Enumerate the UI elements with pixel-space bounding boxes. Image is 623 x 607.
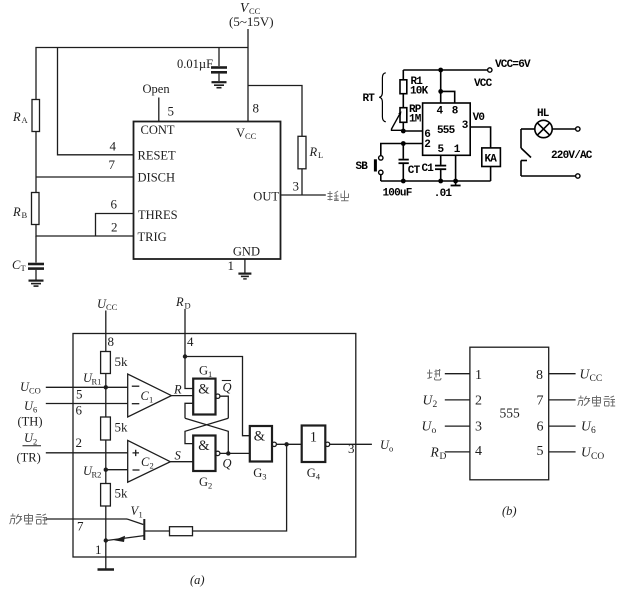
pin number 2 [76, 435, 83, 450]
wire RD vertical [184, 309, 186, 357]
svg-text:V0: V0 [473, 112, 485, 124]
wire pin1 down [455, 155, 457, 181]
svg-text:1M: 1M [409, 114, 422, 126]
resistor RA [32, 100, 40, 132]
capacitor CT [28, 236, 44, 280]
G1 output bubble [216, 394, 220, 398]
wire C2 out S [170, 461, 193, 463]
svg-text:GND: GND [233, 245, 260, 259]
pin 5 line [549, 451, 576, 453]
terminal VCC [488, 68, 492, 72]
label UCO right [581, 445, 604, 463]
G3 output bubble [272, 442, 276, 446]
svg-text:CC: CC [590, 374, 603, 384]
label Q [223, 457, 232, 471]
resistor 5k middle [101, 417, 111, 440]
pin5 stub Open [158, 98, 160, 122]
label U2 (TR) [17, 431, 41, 465]
label Uo left [422, 419, 437, 437]
pin number 5 [76, 387, 83, 402]
pin numbers left [475, 368, 482, 459]
svg-text:&: & [198, 438, 210, 454]
label UCO [20, 380, 41, 396]
potentiometer RP [400, 108, 407, 123]
wire pin2 rail [381, 144, 423, 156]
svg-text:OUT: OUT [253, 190, 279, 204]
label 220V/AC [551, 150, 593, 162]
svg-text:S: S [175, 449, 182, 463]
svg-text:SB: SB [356, 161, 369, 173]
svg-text:1: 1 [139, 510, 143, 520]
svg-text:6: 6 [537, 419, 544, 434]
svg-text:G: G [253, 466, 262, 480]
junction dot Q [226, 451, 230, 455]
svg-text:2: 2 [150, 461, 154, 471]
svg-text:G: G [199, 364, 208, 378]
svg-text:o: o [432, 426, 437, 436]
svg-text:D: D [440, 452, 447, 462]
label 5k middle [115, 420, 129, 435]
wire KA bottom [490, 167, 492, 182]
pin numbers [109, 101, 300, 274]
wire pin5 line [46, 386, 128, 388]
label G3 [253, 466, 266, 482]
wire pin6 [403, 130, 422, 132]
svg-text:6: 6 [76, 403, 83, 418]
svg-text:V: V [236, 126, 245, 140]
ground bar [98, 568, 115, 570]
terminal top [576, 127, 580, 131]
svg-text:o: o [389, 444, 393, 454]
wire pin7 line [46, 519, 144, 525]
gate G3 box [250, 426, 272, 462]
overline TR [23, 445, 42, 447]
svg-text:5k: 5k [115, 420, 129, 435]
wire cross diag Qbar to G2 [185, 418, 228, 443]
svg-text:CO: CO [591, 452, 604, 462]
capacitor 0.01uF [211, 48, 227, 82]
svg-text:CC: CC [245, 131, 257, 141]
wire collector to output node [193, 444, 287, 531]
wire RD to G3 top input [185, 357, 250, 436]
svg-text:4: 4 [316, 472, 321, 482]
svg-text:555: 555 [500, 406, 521, 421]
junction dot emitter [104, 538, 108, 542]
svg-text:&: & [198, 382, 210, 398]
label RB [12, 205, 28, 220]
pin number 1 [95, 542, 102, 557]
svg-text:A: A [22, 115, 29, 125]
svg-text:R: R [175, 295, 184, 309]
svg-text:(TR): (TR) [17, 451, 41, 465]
junction dot RD [183, 354, 187, 358]
gate G4 box [302, 426, 326, 463]
svg-text:6: 6 [111, 197, 118, 212]
svg-text:5: 5 [76, 387, 83, 402]
pin number 4 [187, 334, 194, 349]
svg-text:3: 3 [475, 419, 482, 434]
wire pin6 line [46, 403, 128, 405]
junction dot UR1 [104, 385, 108, 389]
pin 4 line [445, 451, 470, 453]
svg-text:Q: Q [223, 381, 232, 395]
wire cross diag Q to G1 [185, 418, 228, 453]
svg-text:CO: CO [29, 386, 41, 396]
label CT [12, 258, 27, 273]
label discharge CJK right 放电器 [578, 396, 616, 407]
transistor V1 [108, 519, 170, 542]
svg-text:Open: Open [143, 82, 171, 96]
gate G2 box [193, 436, 215, 472]
label & G3 [254, 429, 266, 445]
label KA [485, 154, 498, 166]
svg-text:4: 4 [475, 444, 482, 459]
svg-text:CC: CC [106, 302, 118, 312]
wire bottom rail [381, 180, 491, 182]
wire UCC vertical into box [105, 311, 107, 352]
overline Qbar [222, 380, 231, 382]
svg-text:R: R [173, 383, 182, 397]
label RP 1M [409, 104, 422, 126]
svg-text:5k: 5k [115, 354, 129, 369]
svg-text:1: 1 [475, 368, 482, 383]
svg-text:VCC: VCC [474, 78, 493, 90]
pin 6 line [549, 425, 576, 427]
svg-text:CT: CT [408, 165, 421, 177]
svg-text:DISCH: DISCH [138, 171, 176, 185]
svg-text:G: G [307, 466, 316, 480]
svg-text:2: 2 [433, 400, 438, 410]
pin 1 line [445, 373, 470, 375]
wire pin2 line [46, 452, 128, 454]
label 555 [500, 406, 521, 421]
label C2 [141, 455, 154, 471]
pin 2 line [445, 399, 470, 401]
svg-text:1: 1 [149, 395, 153, 405]
wire UR2 to C2 [106, 469, 128, 471]
wire THRES pin6 [96, 214, 134, 237]
svg-text:4: 4 [110, 139, 117, 154]
ground below GND [238, 274, 251, 279]
junction dot pin1 [453, 179, 458, 184]
resistor RB [32, 193, 40, 225]
label UCC right [580, 367, 603, 385]
switch SB [374, 156, 383, 181]
svg-text:(TH): (TH) [18, 415, 43, 429]
wire vcc vertical [247, 29, 249, 122]
label HL [537, 108, 550, 120]
wire ground below box [105, 557, 107, 569]
label output CJK 输出 [328, 191, 349, 202]
junction dot CT bottom [401, 179, 406, 184]
label 555 [437, 125, 456, 137]
pin GND stub [244, 259, 246, 273]
svg-text:G: G [199, 475, 208, 489]
svg-text:8: 8 [536, 368, 543, 383]
junction dot pin6 [401, 129, 406, 134]
svg-text:8: 8 [108, 334, 115, 349]
svg-text:T: T [21, 263, 27, 273]
svg-text:(5~15V): (5~15V) [229, 14, 274, 29]
svg-text:RT: RT [363, 93, 376, 105]
label VCC [474, 78, 493, 90]
svg-text:7: 7 [77, 519, 84, 534]
comparator C1 [128, 374, 172, 417]
wire pin4 vcc [440, 70, 442, 103]
svg-text:Q: Q [223, 457, 232, 471]
svg-text:100uF: 100uF [383, 188, 412, 200]
label U2 left [423, 393, 438, 411]
wire reset branch [58, 48, 134, 155]
svg-text:HL: HL [537, 108, 550, 120]
wire output U0 [330, 443, 372, 445]
label V0 [473, 112, 485, 124]
label UCC [97, 297, 118, 312]
svg-text:R: R [12, 205, 21, 219]
label R1 10K [410, 76, 429, 98]
resistor collector [170, 527, 193, 536]
svg-text:4: 4 [187, 334, 194, 349]
svg-text:3: 3 [293, 179, 300, 194]
label 1 G4 [310, 429, 317, 445]
svg-text:5k: 5k [115, 486, 129, 501]
svg-text:2: 2 [424, 139, 430, 151]
label & G1 [198, 382, 210, 398]
IC pin labels [138, 123, 280, 259]
label RL [309, 145, 324, 160]
pin 8 line [549, 373, 576, 375]
wire pin8 to RL branch [248, 86, 302, 137]
ground pin1 [451, 181, 461, 186]
wire lamp right [552, 128, 575, 130]
IC box [470, 347, 549, 480]
label G1 [199, 364, 212, 380]
label CT 100uF [383, 165, 421, 200]
svg-text:CONT: CONT [141, 123, 175, 137]
IC 555 box [423, 103, 471, 155]
pin 7 line [549, 399, 576, 401]
label RD left [430, 445, 447, 463]
label Qbar [223, 381, 232, 395]
svg-text:R1: R1 [92, 377, 102, 387]
svg-text:C1: C1 [422, 163, 435, 175]
svg-text:5: 5 [537, 444, 544, 459]
svg-text:5: 5 [168, 104, 175, 119]
svg-text:6: 6 [33, 405, 37, 415]
wire 5k2 to UR2 [105, 440, 107, 484]
wire RL bottom to OUT [301, 169, 303, 195]
svg-text:0.01µF: 0.01µF [177, 57, 213, 71]
label C1 .01 [422, 163, 453, 200]
svg-text:TRIG: TRIG [138, 230, 167, 244]
pin number 3 [348, 441, 355, 456]
relay KA box [482, 148, 501, 167]
label U0 [380, 438, 393, 454]
resistor RL [298, 136, 306, 169]
svg-text:2: 2 [111, 220, 118, 235]
svg-text:VCC=6V: VCC=6V [495, 59, 531, 71]
svg-text:L: L [318, 150, 323, 160]
svg-text:7: 7 [537, 393, 544, 408]
label VCC=6V [495, 59, 531, 71]
label G2 [199, 475, 212, 491]
junction dot pin4/8 [438, 89, 443, 94]
label discharge CJK 放电端 [10, 514, 48, 525]
label UR2 [83, 464, 101, 480]
label ground CJK 地 [427, 369, 441, 380]
RP wiper arrow [392, 111, 404, 130]
wire RA-RB segment [35, 177, 37, 193]
lamp HL [535, 120, 552, 137]
gate G1 box [193, 379, 215, 415]
resistor R1 [400, 80, 407, 94]
junction dot pin2/CT [401, 141, 406, 146]
svg-text:1: 1 [310, 429, 317, 445]
wire Qbar out [220, 396, 228, 418]
pin number 7 [77, 519, 84, 534]
wire lamp left + switch [521, 129, 575, 176]
wire DISCH pin7 [36, 176, 134, 178]
pin numbers 555 [424, 106, 469, 157]
svg-text:2: 2 [76, 435, 83, 450]
wire G1 feedback stub [185, 403, 193, 418]
svg-text:1: 1 [228, 258, 235, 273]
wire TRIG pin2 [36, 225, 134, 237]
wire C1 out R [171, 395, 193, 397]
label U6 right [581, 419, 596, 437]
label C1 [141, 389, 154, 405]
label 0.01uF [177, 57, 213, 71]
G2 output bubble [216, 451, 220, 455]
label V1 [131, 504, 143, 520]
label (a) [190, 573, 205, 587]
wire top VCC rail [403, 69, 487, 71]
svg-text:3: 3 [262, 472, 266, 482]
wire R1-RP [402, 94, 404, 108]
svg-text:220V/AC: 220V/AC [551, 150, 593, 162]
wire R1 top lead [402, 70, 404, 80]
wire 5k1 to node UR1 [105, 374, 107, 418]
svg-text:8: 8 [253, 101, 260, 116]
label 5k lower [115, 486, 129, 501]
svg-text:R: R [430, 445, 440, 460]
label Open [143, 82, 171, 96]
svg-text:KA: KA [485, 154, 498, 166]
label RT brace [363, 93, 376, 105]
svg-text:R: R [309, 145, 318, 159]
node VCC supply label [229, 0, 274, 29]
terminal bottom [576, 174, 580, 178]
svg-text:.01: .01 [434, 188, 453, 200]
svg-text:R: R [12, 110, 21, 124]
label (b) [502, 504, 517, 518]
label UR1 [83, 371, 101, 387]
label R node [173, 383, 182, 397]
junction dot [438, 68, 443, 73]
svg-text:1: 1 [95, 542, 102, 557]
pin numbers right [536, 368, 544, 459]
svg-text:(a): (a) [190, 573, 205, 587]
wire pin8 [441, 91, 455, 103]
svg-text:1: 1 [208, 369, 212, 379]
svg-text:(b): (b) [502, 504, 517, 518]
svg-text:RESET: RESET [138, 149, 177, 163]
svg-text:7: 7 [109, 157, 116, 172]
svg-text:555: 555 [437, 125, 456, 137]
wire top rail [36, 48, 248, 178]
svg-text:2: 2 [208, 481, 212, 491]
wire pin3 to KA [470, 127, 490, 148]
pin number 6 [76, 403, 83, 418]
junction dot C1 bottom [438, 179, 443, 184]
label S node [175, 449, 182, 463]
label G4 [307, 466, 321, 482]
wire OUT pin3 [281, 194, 326, 196]
capacitor C1 [435, 155, 446, 181]
wire RP bottom to pin6 [402, 122, 404, 131]
wire Q out to G3 [220, 452, 250, 454]
svg-text:3: 3 [348, 441, 355, 456]
comparator C2 [128, 440, 171, 482]
label 5k upper [115, 354, 129, 369]
svg-text:B: B [22, 210, 28, 220]
label SB [356, 161, 369, 173]
label U6 (TH) [18, 399, 43, 429]
wire 5k3 down to emitter node [105, 506, 107, 557]
label & G2 [198, 438, 210, 454]
resistor 5k lower [101, 484, 111, 507]
ground below CT [29, 281, 44, 287]
IC U1 555 box [134, 122, 281, 260]
svg-text:6: 6 [591, 426, 596, 436]
junction dot UR2 [104, 468, 108, 472]
svg-text:2: 2 [33, 437, 37, 447]
svg-text:10K: 10K [410, 86, 429, 98]
svg-text:2: 2 [475, 393, 482, 408]
wire G3 to G4 [276, 443, 301, 445]
pin 3 line [445, 425, 470, 427]
capacitor CT2 [399, 144, 409, 182]
outer box [73, 334, 356, 558]
pin number 8 [108, 334, 115, 349]
resistor 5k upper [101, 352, 111, 374]
svg-text:&: & [254, 429, 266, 445]
ground below 0.01uF [212, 82, 227, 88]
svg-text:R2: R2 [92, 470, 102, 480]
label RA [12, 110, 29, 125]
junction dot output [284, 442, 288, 446]
label RD [175, 295, 191, 311]
svg-text:THRES: THRES [138, 208, 178, 222]
G4 output bubble [325, 442, 329, 446]
wire RD down to G1 input [185, 357, 193, 389]
